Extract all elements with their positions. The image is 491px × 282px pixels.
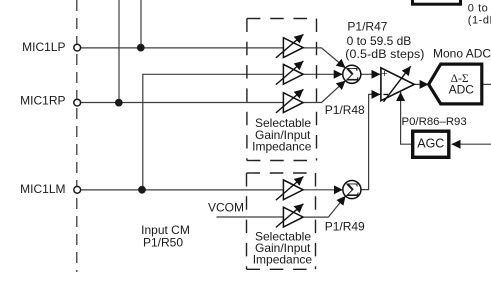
svg-text:0 to: 0 to	[468, 3, 489, 15]
svg-text:MIC1RP: MIC1RP	[20, 94, 65, 108]
svg-text:P1/R47: P1/R47	[347, 20, 387, 34]
svg-text:P1/R49: P1/R49	[325, 219, 365, 233]
svg-text:P0/R86–R93: P0/R86–R93	[402, 116, 467, 128]
svg-text:P1/R50: P1/R50	[143, 236, 183, 250]
svg-text:(0.5-dB steps): (0.5-dB steps)	[345, 47, 424, 61]
svg-text:MIC1LP: MIC1LP	[22, 40, 65, 54]
svg-text:P1/R48: P1/R48	[325, 103, 365, 117]
svg-text:(1-dB: (1-dB	[468, 15, 491, 27]
svg-text:ADC: ADC	[449, 82, 475, 96]
svg-text:VCOM: VCOM	[208, 200, 244, 214]
svg-text:+: +	[381, 68, 387, 80]
svg-text:MIC1LM: MIC1LM	[20, 182, 65, 196]
svg-text:Σ: Σ	[345, 179, 360, 200]
svg-text:Impedance: Impedance	[252, 140, 312, 154]
svg-text:AGC: AGC	[417, 136, 444, 150]
svg-text:Impedance: Impedance	[253, 252, 313, 266]
svg-text:Σ: Σ	[345, 64, 360, 85]
svg-text:Mono ADC: Mono ADC	[433, 47, 491, 61]
